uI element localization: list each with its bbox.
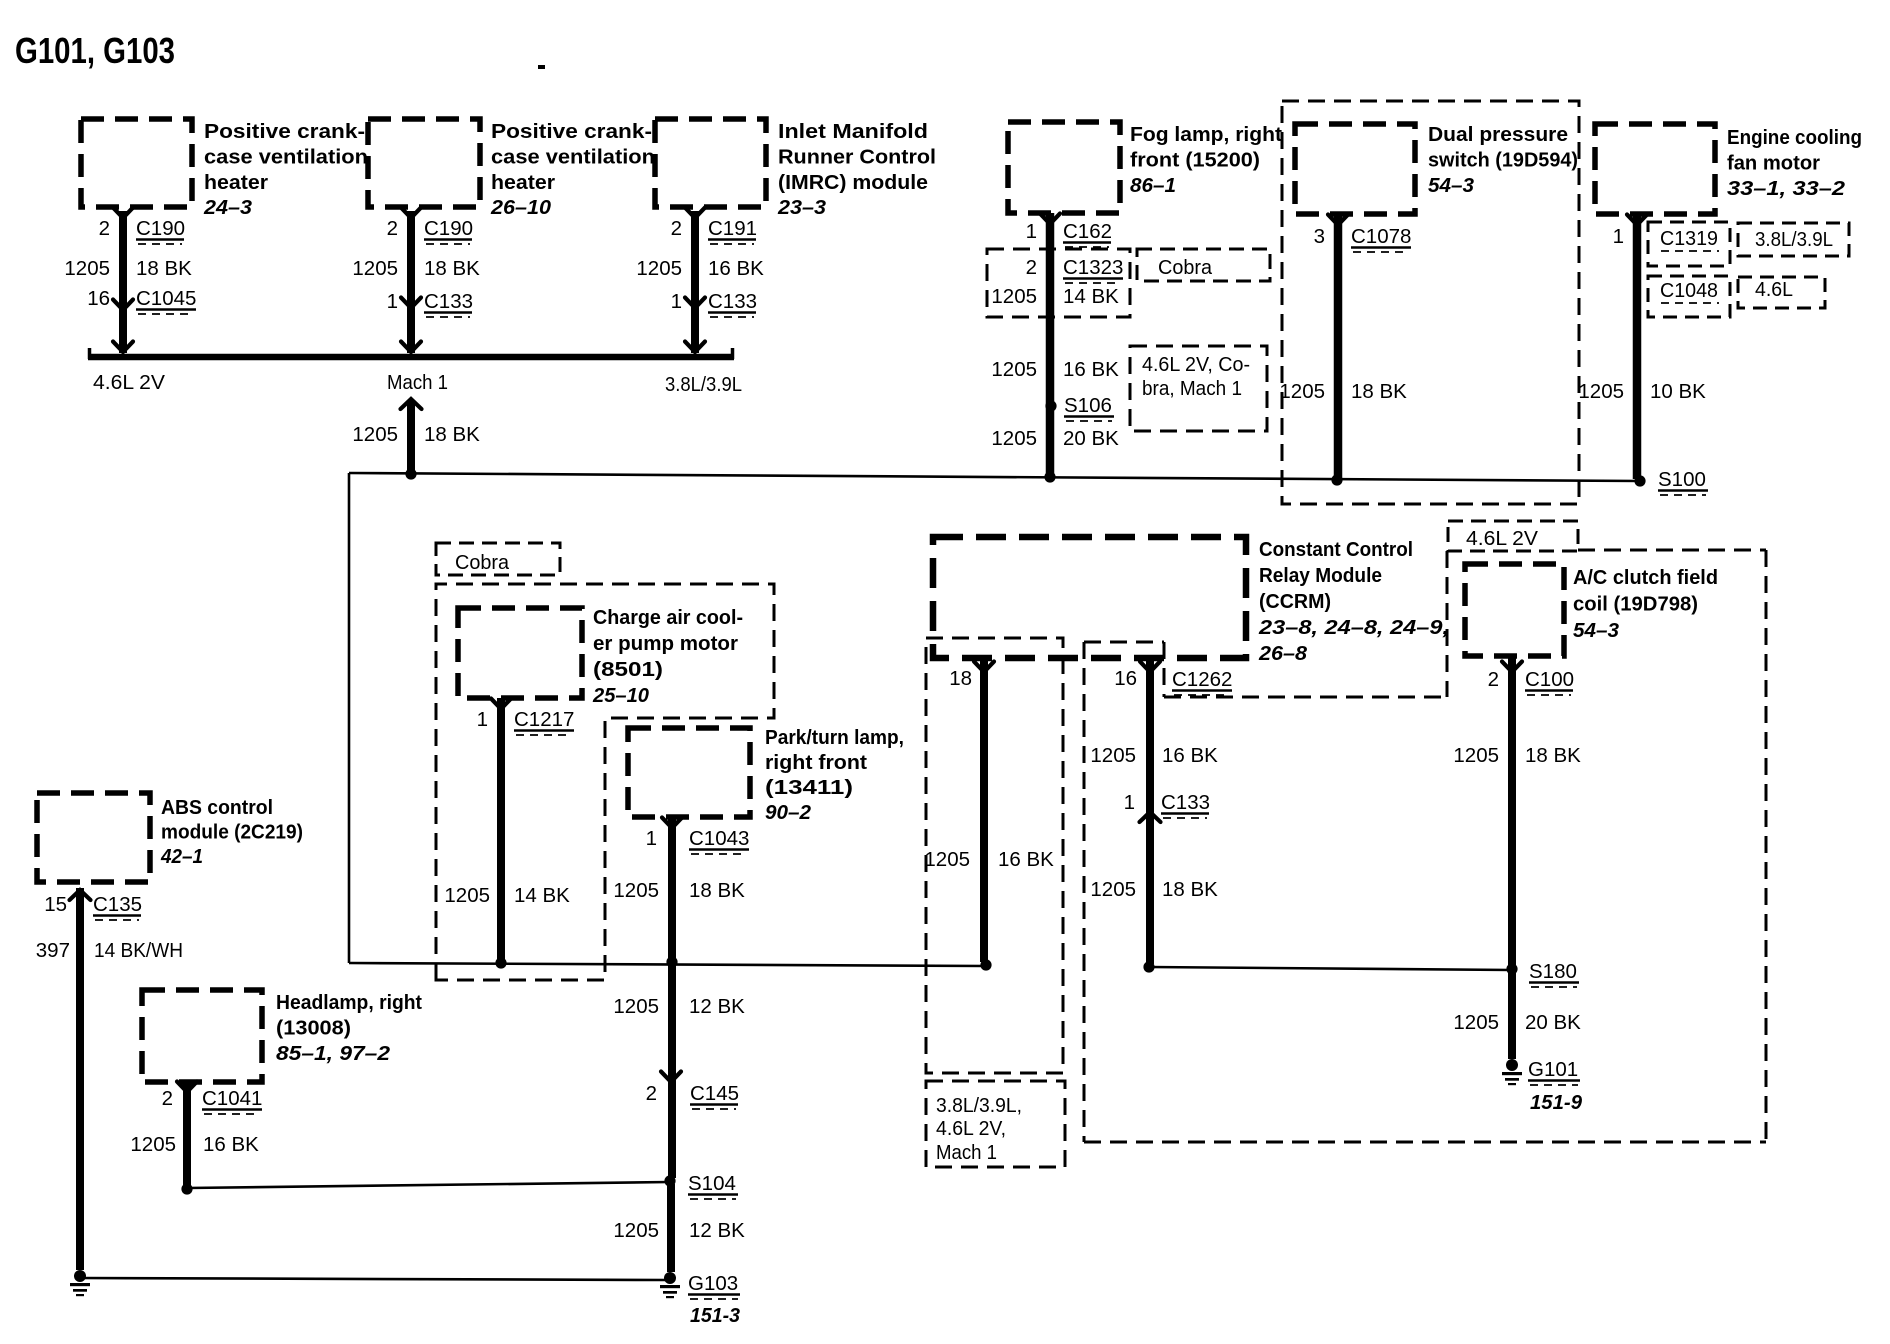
svg-text:C190: C190 — [424, 217, 473, 240]
svg-text:Dual pressure: Dual pressure — [1428, 123, 1568, 146]
svg-text:23–3: 23–3 — [777, 196, 827, 219]
svg-text:C162: C162 — [1063, 220, 1112, 243]
svg-text:2: 2 — [671, 217, 682, 240]
svg-text:Engine cooling: Engine cooling — [1727, 126, 1862, 149]
svg-text:heater: heater — [204, 171, 268, 194]
svg-text:C1262: C1262 — [1172, 668, 1232, 691]
svg-text:18 BK: 18 BK — [1351, 380, 1407, 403]
svg-text:26–8: 26–8 — [1258, 642, 1308, 665]
svg-text:C133: C133 — [708, 290, 757, 313]
svg-text:4.6L 2V,: 4.6L 2V, — [936, 1117, 1006, 1140]
svg-text:A/C clutch field: A/C clutch field — [1573, 566, 1718, 589]
svg-text:C1319: C1319 — [1660, 227, 1718, 250]
svg-text:1205: 1205 — [1453, 1011, 1499, 1034]
svg-text:coil (19D798): coil (19D798) — [1573, 593, 1698, 616]
svg-text:1205: 1205 — [636, 257, 682, 280]
svg-text:18: 18 — [949, 667, 972, 690]
svg-text:16 BK: 16 BK — [203, 1133, 259, 1156]
svg-text:C135: C135 — [93, 893, 142, 916]
svg-text:90–2: 90–2 — [765, 801, 812, 824]
svg-text:case ventilation: case ventilation — [204, 145, 368, 168]
svg-text:4.6L 2V, Co-: 4.6L 2V, Co- — [1142, 353, 1250, 376]
svg-text:1205: 1205 — [613, 995, 659, 1018]
svg-text:right front: right front — [765, 751, 867, 774]
svg-text:(IMRC) module: (IMRC) module — [778, 171, 928, 194]
svg-text:S100: S100 — [1658, 468, 1706, 491]
svg-text:4.6L: 4.6L — [1755, 278, 1793, 301]
svg-text:15: 15 — [44, 893, 67, 916]
svg-text:(13008): (13008) — [276, 1016, 351, 1039]
svg-text:module (2C219): module (2C219) — [161, 821, 303, 844]
svg-text:12 BK: 12 BK — [689, 1219, 745, 1242]
svg-text:heater: heater — [491, 171, 555, 194]
svg-text:54–3: 54–3 — [1428, 174, 1475, 197]
svg-text:Constant Control: Constant Control — [1259, 538, 1413, 561]
svg-text:fan motor: fan motor — [1727, 151, 1820, 174]
svg-text:Park/turn lamp,: Park/turn lamp, — [765, 726, 904, 749]
svg-text:Charge air cool-: Charge air cool- — [593, 606, 743, 629]
svg-text:G101, G103: G101, G103 — [15, 30, 175, 71]
svg-text:2: 2 — [1026, 256, 1037, 279]
svg-text:Cobra: Cobra — [1158, 256, 1213, 279]
svg-text:18 BK: 18 BK — [424, 257, 480, 280]
svg-text:Headlamp, right: Headlamp, right — [276, 991, 422, 1014]
svg-text:C1048: C1048 — [1660, 279, 1718, 302]
svg-text:1205: 1205 — [1279, 380, 1325, 403]
svg-text:1205: 1205 — [130, 1133, 176, 1156]
svg-text:C100: C100 — [1525, 668, 1574, 691]
svg-text:2: 2 — [387, 217, 398, 240]
svg-text:1205: 1205 — [1453, 744, 1499, 767]
svg-text:16: 16 — [87, 287, 110, 310]
svg-text:16: 16 — [1114, 667, 1137, 690]
svg-text:151-3: 151-3 — [690, 1304, 741, 1327]
svg-text:(CCRM): (CCRM) — [1259, 590, 1331, 613]
svg-text:Positive crank-: Positive crank- — [204, 120, 365, 143]
svg-text:16 BK: 16 BK — [998, 848, 1054, 871]
svg-text:Cobra: Cobra — [455, 551, 510, 574]
svg-text:C1217: C1217 — [514, 708, 574, 731]
svg-text:Mach 1: Mach 1 — [387, 371, 448, 394]
svg-text:Inlet Manifold: Inlet Manifold — [778, 120, 928, 143]
svg-text:2: 2 — [99, 217, 110, 240]
svg-text:14 BK/WH: 14 BK/WH — [94, 939, 183, 962]
svg-text:1: 1 — [646, 827, 657, 850]
svg-text:12 BK: 12 BK — [689, 995, 745, 1018]
svg-text:1205: 1205 — [444, 884, 490, 907]
svg-text:1205: 1205 — [991, 358, 1037, 381]
svg-text:14 BK: 14 BK — [514, 884, 570, 907]
svg-text:bra, Mach 1: bra, Mach 1 — [1142, 377, 1242, 400]
svg-text:C1323: C1323 — [1063, 256, 1123, 279]
svg-text:14 BK: 14 BK — [1063, 285, 1119, 308]
svg-text:(8501): (8501) — [593, 658, 663, 681]
svg-text:(13411): (13411) — [765, 776, 853, 799]
svg-text:24–3: 24–3 — [203, 196, 253, 219]
svg-text:1205: 1205 — [613, 1219, 659, 1242]
svg-text:S106: S106 — [1064, 394, 1112, 417]
svg-text:case ventilation: case ventilation — [491, 145, 655, 168]
svg-text:4.6L 2V: 4.6L 2V — [1466, 527, 1538, 550]
svg-text:1205: 1205 — [1090, 744, 1136, 767]
svg-text:C1045: C1045 — [136, 287, 196, 310]
svg-text:1: 1 — [477, 708, 488, 731]
svg-text:1205: 1205 — [352, 423, 398, 446]
svg-text:S180: S180 — [1529, 960, 1577, 983]
svg-text:G101: G101 — [1528, 1058, 1578, 1081]
svg-text:1205: 1205 — [613, 879, 659, 902]
svg-text:1205: 1205 — [1090, 878, 1136, 901]
svg-text:54–3: 54–3 — [1573, 619, 1620, 642]
svg-text:C133: C133 — [424, 290, 473, 313]
svg-text:switch (19D594): switch (19D594) — [1428, 148, 1578, 171]
svg-text:23–8, 24–8, 24–9,: 23–8, 24–8, 24–9, — [1258, 616, 1449, 639]
svg-text:18 BK: 18 BK — [1525, 744, 1581, 767]
svg-text:1: 1 — [1124, 791, 1135, 814]
svg-text:C133: C133 — [1161, 791, 1210, 814]
svg-text:ABS control: ABS control — [161, 796, 273, 819]
svg-text:25–10: 25–10 — [592, 684, 650, 707]
svg-text:C191: C191 — [708, 217, 757, 240]
svg-text:1: 1 — [1026, 220, 1037, 243]
svg-text:397: 397 — [36, 939, 70, 962]
svg-text:26–10: 26–10 — [490, 196, 552, 219]
svg-text:16 BK: 16 BK — [1162, 744, 1218, 767]
svg-text:G103: G103 — [688, 1272, 738, 1295]
svg-text:er pump motor: er pump motor — [593, 632, 738, 655]
svg-text:1205: 1205 — [1578, 380, 1624, 403]
svg-text:86–1: 86–1 — [1130, 174, 1176, 197]
svg-text:Runner Control: Runner Control — [778, 145, 936, 168]
svg-text:1205: 1205 — [924, 848, 970, 871]
svg-text:2: 2 — [646, 1082, 657, 1105]
svg-text:C145: C145 — [690, 1082, 739, 1105]
svg-text:1205: 1205 — [352, 257, 398, 280]
svg-text:3.8L/3.9L: 3.8L/3.9L — [1755, 228, 1833, 251]
svg-text:C1041: C1041 — [202, 1087, 262, 1110]
svg-text:Fog lamp, right: Fog lamp, right — [1130, 123, 1282, 146]
svg-text:20 BK: 20 BK — [1063, 427, 1119, 450]
svg-text:S104: S104 — [688, 1172, 736, 1195]
svg-text:33–1, 33–2: 33–1, 33–2 — [1727, 177, 1846, 200]
svg-text:1205: 1205 — [991, 285, 1037, 308]
svg-text:18 BK: 18 BK — [136, 257, 192, 280]
svg-text:1: 1 — [387, 290, 398, 313]
svg-text:16 BK: 16 BK — [1063, 358, 1119, 381]
svg-text:1205: 1205 — [64, 257, 110, 280]
svg-text:3: 3 — [1314, 225, 1325, 248]
svg-text:151-9: 151-9 — [1530, 1091, 1583, 1114]
svg-text:Relay Module: Relay Module — [1259, 564, 1382, 587]
svg-text:42–1: 42–1 — [160, 845, 203, 868]
svg-text:85–1, 97–2: 85–1, 97–2 — [276, 1042, 391, 1065]
svg-text:1205: 1205 — [991, 427, 1037, 450]
svg-text:Positive crank-: Positive crank- — [491, 120, 652, 143]
svg-text:C1043: C1043 — [689, 827, 749, 850]
svg-text:2: 2 — [162, 1087, 173, 1110]
svg-text:4.6L 2V: 4.6L 2V — [93, 371, 165, 394]
svg-text:3.8L/3.9L,: 3.8L/3.9L, — [936, 1094, 1022, 1117]
svg-text:1: 1 — [1613, 225, 1624, 248]
svg-text:16 BK: 16 BK — [708, 257, 764, 280]
svg-text:18 BK: 18 BK — [424, 423, 480, 446]
svg-text:Mach 1: Mach 1 — [936, 1141, 997, 1164]
svg-text:C1078: C1078 — [1351, 225, 1411, 248]
svg-text:20 BK: 20 BK — [1525, 1011, 1581, 1034]
svg-text:18 BK: 18 BK — [689, 879, 745, 902]
svg-text:3.8L/3.9L: 3.8L/3.9L — [665, 373, 742, 396]
svg-text:10 BK: 10 BK — [1650, 380, 1706, 403]
svg-text:18 BK: 18 BK — [1162, 878, 1218, 901]
svg-text:1: 1 — [671, 290, 682, 313]
svg-text:front (15200): front (15200) — [1130, 148, 1260, 171]
svg-text:2: 2 — [1488, 668, 1499, 691]
svg-text:C190: C190 — [136, 217, 185, 240]
